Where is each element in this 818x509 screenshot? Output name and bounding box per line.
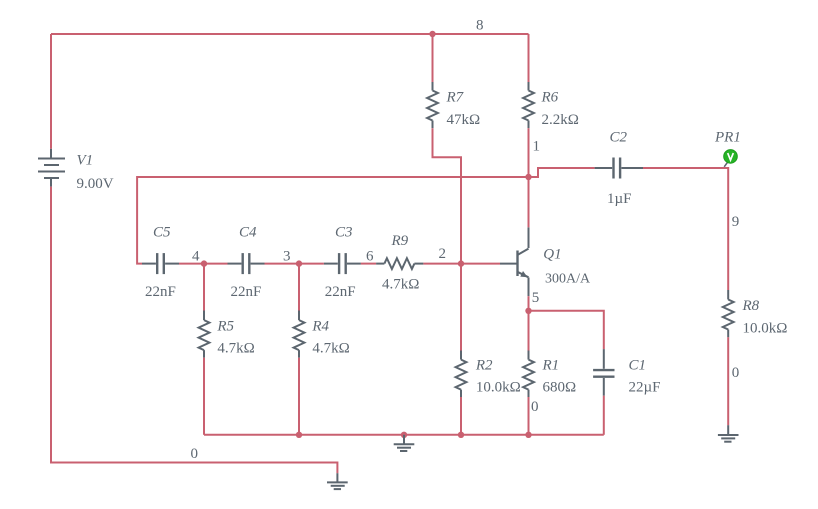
junction node 1 bbox=[525, 174, 531, 180]
junction R2 / ground rail bbox=[458, 432, 464, 438]
svg-text:4.7kΩ: 4.7kΩ bbox=[382, 276, 419, 292]
junction R4 / ground rail bbox=[296, 432, 302, 438]
svg-text:R1: R1 bbox=[542, 357, 560, 373]
emitter arrow Q1 bbox=[520, 271, 527, 277]
junction ground tap bbox=[401, 432, 407, 438]
svg-text:R5: R5 bbox=[216, 319, 234, 335]
resistor R8 bbox=[723, 290, 734, 337]
svg-text:R7: R7 bbox=[446, 90, 465, 106]
svg-text:2.2kΩ: 2.2kΩ bbox=[542, 112, 579, 128]
resistor R1 bbox=[523, 351, 534, 398]
wire C5 to node 4 bbox=[179, 263, 204, 265]
svg-text:R4: R4 bbox=[311, 319, 329, 335]
wire R9 to node 2 bbox=[423, 263, 461, 265]
svg-text:47kΩ: 47kΩ bbox=[447, 112, 481, 128]
wire R6 bottom to node 1 bbox=[528, 128, 530, 177]
svg-text:0: 0 bbox=[732, 365, 740, 381]
probe PR1 bbox=[724, 150, 738, 164]
svg-text:R9: R9 bbox=[391, 233, 409, 249]
resistor R6 bbox=[523, 82, 534, 128]
junction node 2 bbox=[458, 260, 464, 266]
wire R4 bottom bbox=[298, 358, 300, 435]
svg-text:R6: R6 bbox=[541, 90, 559, 106]
svg-text:1µF: 1µF bbox=[607, 191, 632, 207]
svg-text:0: 0 bbox=[191, 446, 199, 462]
svg-text:4: 4 bbox=[192, 249, 200, 265]
resistor R7 bbox=[427, 82, 438, 128]
ground (R8) bbox=[718, 425, 739, 442]
wire node 4 to C4 bbox=[204, 263, 228, 265]
wire node 3 to C3 bbox=[299, 263, 324, 265]
wire R7 bottom to node 2 column bbox=[433, 128, 462, 263]
junction top rail / R7 bbox=[429, 31, 435, 37]
svg-text:8: 8 bbox=[476, 18, 484, 34]
svg-text:R8: R8 bbox=[742, 298, 760, 314]
resistor R2 bbox=[456, 351, 467, 398]
wire battery top bbox=[50, 34, 52, 149]
svg-text:0: 0 bbox=[531, 399, 539, 415]
wire node 2 to R2 bbox=[460, 264, 462, 351]
svg-text:4.7kΩ: 4.7kΩ bbox=[312, 341, 349, 357]
wire feedback node 1 to C5 bbox=[137, 177, 528, 264]
svg-text:C3: C3 bbox=[335, 224, 353, 240]
wire C3 to R9 bbox=[361, 263, 376, 265]
svg-text:Q1: Q1 bbox=[543, 246, 561, 262]
wire R6 top bbox=[528, 34, 530, 82]
probe PR1 pin bbox=[724, 161, 728, 167]
svg-text:PR1: PR1 bbox=[714, 130, 741, 146]
wire node 3 to R4 bbox=[298, 264, 300, 311]
wire C2 to probe corner bbox=[643, 168, 728, 290]
wire node 5 to R1 bbox=[528, 311, 530, 351]
wire node 5 to C1 bbox=[529, 311, 604, 349]
wire R8 bottom bbox=[727, 337, 729, 425]
svg-text:300A/A: 300A/A bbox=[545, 271, 591, 286]
wire R2 bottom bbox=[460, 397, 462, 435]
wire ground rail bbox=[204, 434, 604, 436]
svg-text:C5: C5 bbox=[153, 224, 171, 240]
transistor Q1 bbox=[500, 227, 529, 296]
svg-text:22nF: 22nF bbox=[325, 284, 356, 300]
wire C1 bottom to rail bbox=[603, 396, 605, 435]
capacitor C3 bbox=[324, 253, 361, 274]
svg-text:9: 9 bbox=[732, 214, 740, 230]
wire C4 to node 3 bbox=[265, 263, 300, 265]
svg-text:C2: C2 bbox=[610, 130, 628, 146]
capacitor C2 bbox=[595, 158, 643, 179]
wire Q1 collector to node 1 bbox=[528, 177, 530, 227]
svg-text:V1: V1 bbox=[77, 152, 94, 168]
svg-text:10.0kΩ: 10.0kΩ bbox=[743, 321, 788, 337]
wire R1 bottom bbox=[528, 397, 530, 435]
svg-text:4.7kΩ: 4.7kΩ bbox=[217, 341, 254, 357]
battery V1 bbox=[38, 149, 65, 187]
wire node 2 to Q1 base bbox=[461, 263, 500, 265]
svg-text:3: 3 bbox=[283, 249, 291, 265]
wire top rail node 8 bbox=[51, 33, 529, 35]
svg-text:9.00V: 9.00V bbox=[77, 176, 114, 192]
svg-text:5: 5 bbox=[532, 290, 540, 306]
capacitor C1 bbox=[593, 349, 614, 396]
capacitor C4 bbox=[228, 253, 265, 274]
ground (main rail) bbox=[394, 435, 415, 451]
svg-text:C1: C1 bbox=[629, 357, 647, 373]
svg-text:22nF: 22nF bbox=[145, 284, 176, 300]
wire node 1 jog to C2 bbox=[529, 168, 595, 177]
resistor R4 bbox=[294, 311, 305, 358]
svg-text:22µF: 22µF bbox=[629, 379, 661, 395]
junction node 5 bbox=[525, 308, 531, 314]
svg-text:R2: R2 bbox=[475, 357, 493, 373]
junction node 3 bbox=[296, 260, 302, 266]
wire R7 top bbox=[432, 34, 434, 82]
ground (bottom left) bbox=[327, 473, 348, 489]
capacitor C5 bbox=[142, 253, 179, 274]
svg-text:1: 1 bbox=[533, 139, 541, 155]
wire Q1 emitter to node 5 bbox=[528, 296, 530, 311]
resistor R9 bbox=[376, 258, 423, 269]
svg-text:10.0kΩ: 10.0kΩ bbox=[476, 379, 521, 395]
svg-text:6: 6 bbox=[366, 249, 374, 265]
svg-text:680Ω: 680Ω bbox=[543, 379, 577, 395]
wire R5 bottom bbox=[203, 358, 205, 435]
wire node 4 to R5 bbox=[203, 264, 205, 311]
resistor R5 bbox=[199, 311, 210, 358]
svg-text:2: 2 bbox=[439, 246, 447, 262]
junction R1 / ground rail bbox=[525, 432, 531, 438]
junction node 4 bbox=[201, 260, 207, 266]
svg-text:22nF: 22nF bbox=[231, 284, 262, 300]
wire battery bottom to node 0 rail bbox=[51, 187, 337, 474]
svg-text:C4: C4 bbox=[239, 224, 257, 240]
